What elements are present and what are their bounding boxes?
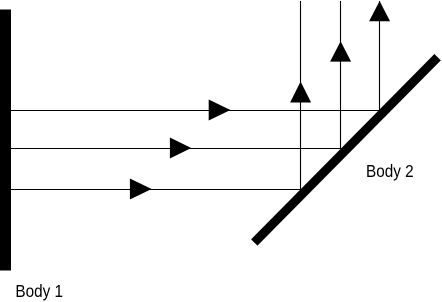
body 1 bar	[0, 10, 11, 271]
ray 3 vertical arrowhead	[290, 82, 311, 103]
ray 1 reflected vertical wire	[379, 1, 381, 110]
ray 1 horizontal arrowhead	[209, 100, 231, 121]
ray 2 reflected vertical wire	[340, 1, 342, 149]
body 2 diagonal bar	[254, 57, 437, 242]
svg-text:Body 2: Body 2	[366, 161, 414, 181]
ray 2 vertical arrowhead	[330, 41, 351, 61]
ray 3 horizontal wire	[11, 189, 301, 191]
ray 2 horizontal arrowhead	[170, 138, 191, 159]
ray 1 vertical arrowhead	[369, 1, 390, 21]
ray 2 horizontal wire	[11, 148, 341, 150]
ray 3 horizontal arrowhead	[130, 179, 152, 200]
ray 3 reflected vertical wire	[300, 1, 302, 189]
svg-text:Body 1: Body 1	[15, 281, 63, 301]
ray 1 horizontal wire	[11, 110, 379, 112]
